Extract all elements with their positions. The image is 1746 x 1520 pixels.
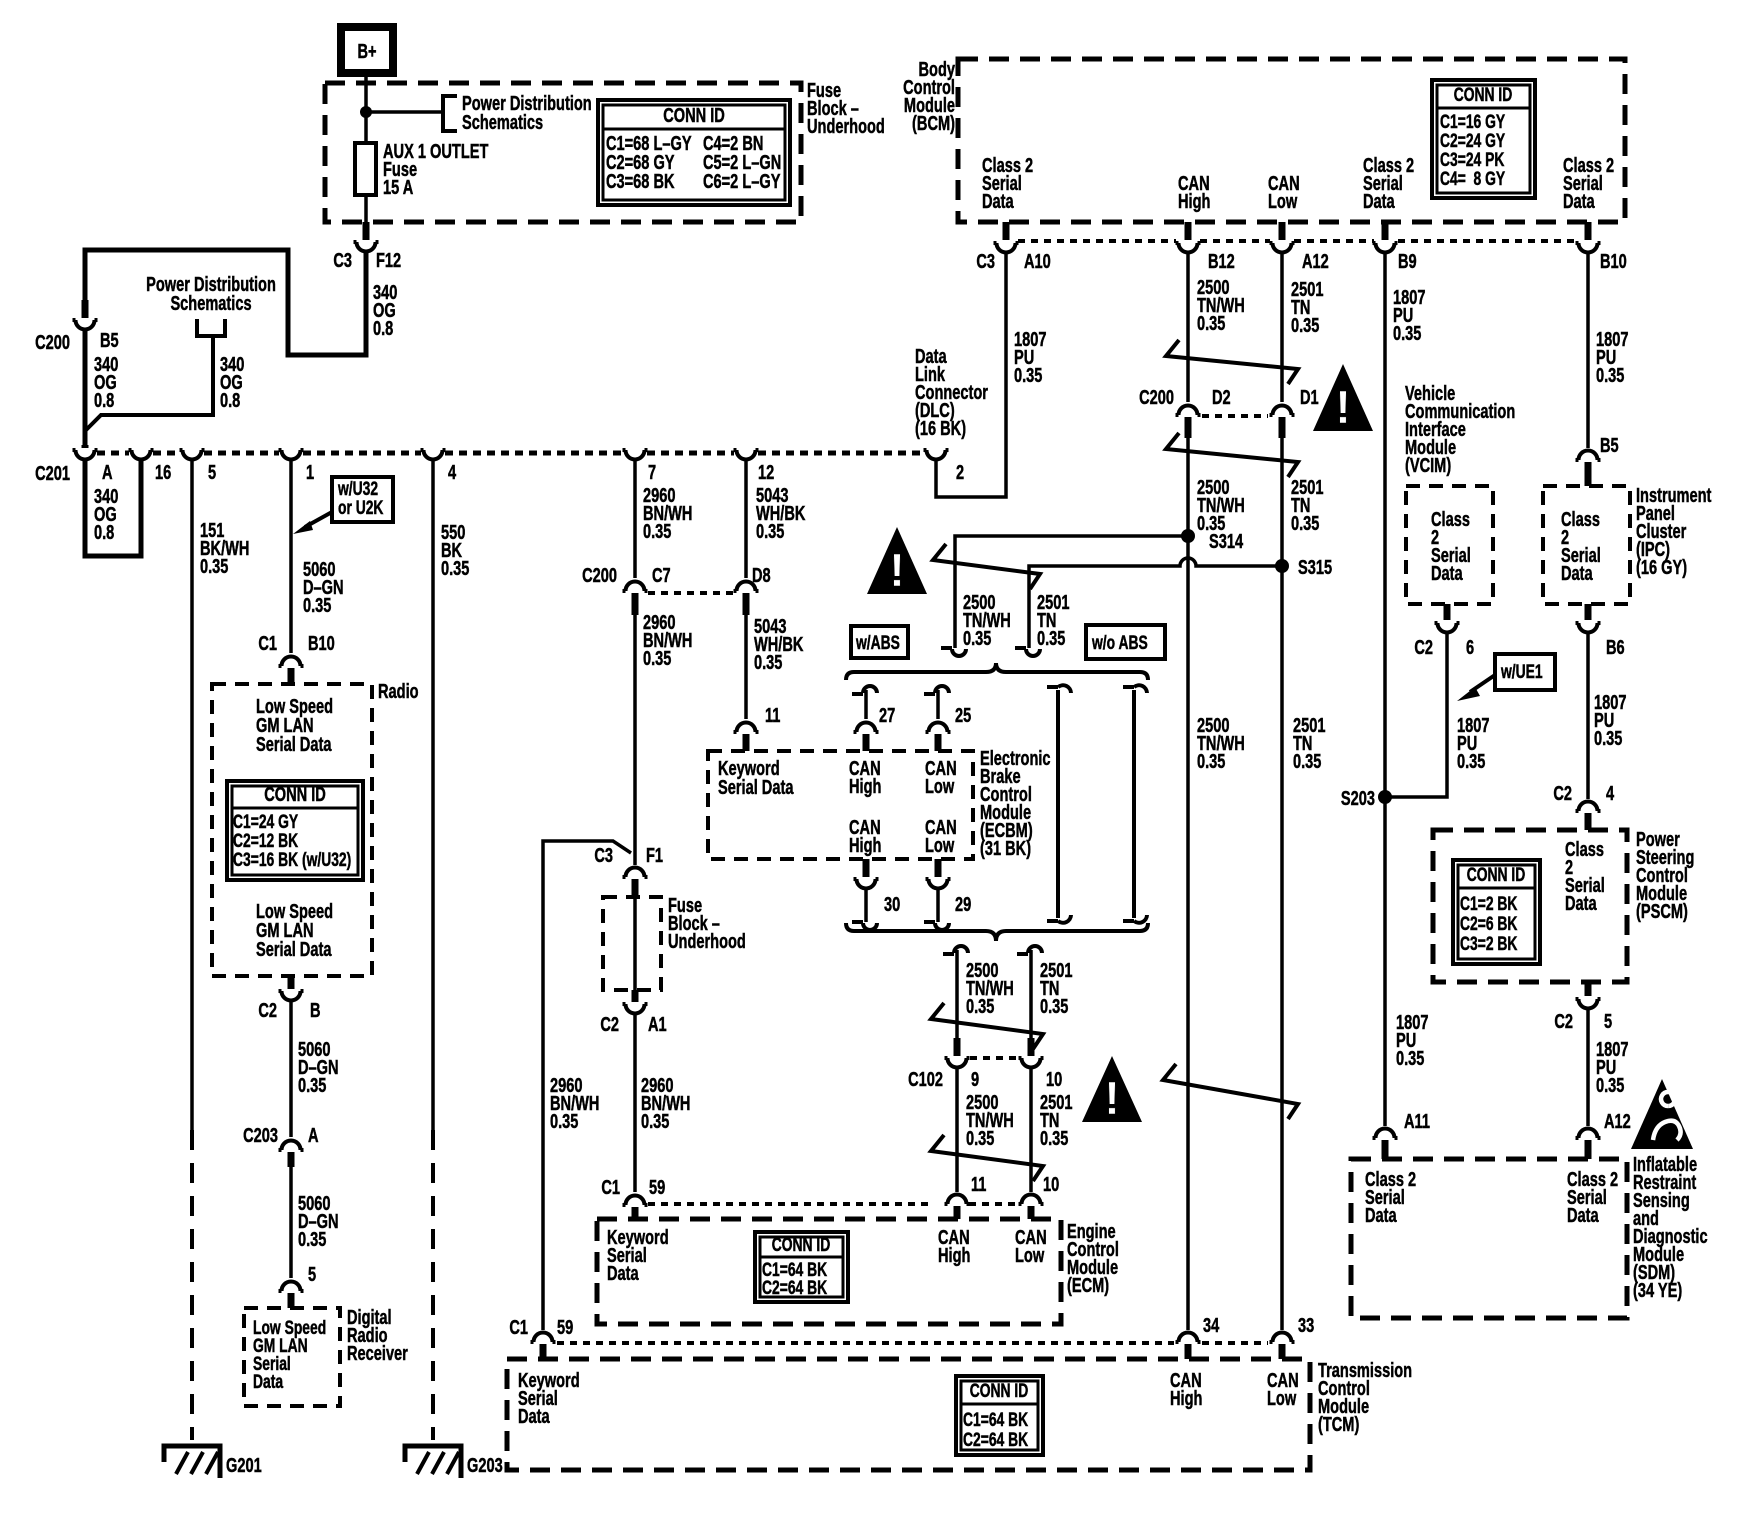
svg-text:4: 4 xyxy=(448,461,456,484)
label 2501 TN 0.35 (w/ABS) xyxy=(1037,591,1070,650)
VCIM box xyxy=(1406,486,1493,604)
label 1807 PU 0.35 (below S203) xyxy=(1396,1011,1428,1070)
wire A10 to DLC 2 (1807 PU) xyxy=(936,254,1006,497)
svg-text:Underhood: Underhood xyxy=(668,930,746,953)
w/o ABS bypass wire (left) xyxy=(1056,690,1060,918)
label class 2 serial data (SDM right) xyxy=(1567,1168,1618,1227)
connector C3/F1 xyxy=(623,868,648,878)
BCM pin stub x=1006 xyxy=(1003,222,1010,240)
dashed connector line C7 to D8 xyxy=(648,591,733,595)
svg-text:Data: Data xyxy=(1563,190,1595,213)
connector C2/B (radio bottom) xyxy=(288,976,295,989)
svg-text:0.35: 0.35 xyxy=(963,627,992,650)
connector C2/A1 xyxy=(632,990,639,1002)
wire fuse to F12 xyxy=(364,195,368,222)
svg-text:C3=68 BK: C3=68 BK xyxy=(606,170,675,193)
svg-text:(34 YE): (34 YE) xyxy=(1633,1279,1682,1302)
wire branch to keyword serial data (left drop) xyxy=(543,841,631,1330)
radio box xyxy=(212,684,372,976)
w/UE1 tag xyxy=(1495,654,1555,690)
svg-text:C3: C3 xyxy=(333,249,352,272)
label 2500 TN/WH 0.35 (trunk) xyxy=(1197,714,1245,773)
label CAN Low (BCM) xyxy=(1268,172,1300,213)
svg-text:16: 16 xyxy=(155,461,171,484)
label class 2 serial data (BCM B9) xyxy=(1363,154,1414,213)
svg-text:0.8: 0.8 xyxy=(94,521,115,544)
wire ECBM pin 25 xyxy=(924,686,949,694)
label engine control module (ECM) xyxy=(1067,1220,1119,1297)
svg-text:0.35: 0.35 xyxy=(966,1127,995,1150)
svg-text:C2: C2 xyxy=(1414,636,1433,659)
wire A12 CAN Low upper xyxy=(1280,254,1284,402)
label CAN High (ECBM upper) xyxy=(849,757,881,798)
wire brace to C102 10 (2501 TN) xyxy=(1017,946,1042,954)
svg-text:C2=64 BK: C2=64 BK xyxy=(762,1277,827,1299)
svg-text:11: 11 xyxy=(765,704,781,727)
label low speed GM LAN serial data (radio bottom) xyxy=(256,900,333,961)
label class 2 serial data (IPC) xyxy=(1561,508,1601,585)
label 151 BK/WH 0.35 xyxy=(200,519,249,578)
wire S314 to w/ABS drop xyxy=(955,536,1188,648)
svg-text:0.35: 0.35 xyxy=(1457,750,1486,773)
svg-text:C2: C2 xyxy=(258,999,277,1022)
BCM pin stub x=1282 xyxy=(1279,222,1286,240)
label instrument panel cluster (IPC) (16 GY) xyxy=(1636,484,1712,579)
DLC pin 1 xyxy=(279,450,304,460)
svg-text:C1: C1 xyxy=(258,632,277,655)
wire DLC A to pin 16 loop xyxy=(85,461,141,556)
BCM pin stub x=1588 xyxy=(1585,222,1592,240)
CONN ID table (ECM) xyxy=(755,1232,848,1302)
svg-text:0.35: 0.35 xyxy=(1037,627,1066,650)
svg-text:5: 5 xyxy=(1604,1010,1612,1033)
w/U32 or U2K tag xyxy=(332,477,393,522)
connector C200/D1 xyxy=(1270,406,1295,416)
label 2501 TN 0.35 (above C102) xyxy=(1040,959,1073,1018)
label keyword serial data (ECM) xyxy=(607,1226,669,1285)
svg-text:0.35: 0.35 xyxy=(1393,322,1422,345)
connector C2/5 (PSCM bottom) xyxy=(1585,982,1592,996)
svg-text:0.35: 0.35 xyxy=(966,995,995,1018)
svg-text:C2: C2 xyxy=(600,1013,619,1036)
connector C200/D2 xyxy=(1176,406,1201,416)
label 1807 PU 0.35 (A10) xyxy=(1014,328,1046,387)
svg-text:A1: A1 xyxy=(648,1013,667,1036)
svg-text:0.35: 0.35 xyxy=(1040,995,1069,1018)
digital radio receiver box xyxy=(244,1308,340,1406)
svg-text:(16 GY): (16 GY) xyxy=(1636,556,1687,579)
DLC pin 12 xyxy=(734,450,759,460)
PSCM box xyxy=(1433,830,1627,982)
svg-text:F1: F1 xyxy=(646,844,663,867)
label 2960 BN/WH 0.35 (A1) xyxy=(641,1074,690,1133)
svg-text:Low: Low xyxy=(1268,190,1298,213)
warning triangle (ECM) xyxy=(1082,1056,1142,1122)
connector pin 33 (TCM) xyxy=(1270,1333,1295,1343)
svg-text:Data: Data xyxy=(1567,1204,1599,1227)
svg-text:Data: Data xyxy=(518,1405,550,1428)
svg-text:25: 25 xyxy=(955,704,971,727)
svg-text:D1: D1 xyxy=(1300,386,1319,409)
battery B+ terminal xyxy=(341,27,393,73)
svg-text:C2=6 BK: C2=6 BK xyxy=(1460,913,1517,935)
CONN ID table (fuse block) xyxy=(598,100,790,205)
splice S314 xyxy=(1181,529,1195,543)
svg-text:High: High xyxy=(849,834,881,857)
power distribution bracket (left) xyxy=(197,319,225,336)
label 2500 TN/WH 0.35 (below C102) xyxy=(966,1091,1014,1150)
svg-text:9: 9 xyxy=(971,1068,979,1091)
label digital radio receiver xyxy=(347,1306,408,1365)
label CAN High (ECBM lower) xyxy=(849,816,881,857)
svg-text:C3=2 BK: C3=2 BK xyxy=(1460,933,1517,955)
svg-text:B5: B5 xyxy=(1600,434,1619,457)
label class 2 serial data (BCM A10) xyxy=(982,154,1033,213)
svg-text:34: 34 xyxy=(1203,1314,1219,1337)
svg-text:(VCIM): (VCIM) xyxy=(1405,454,1451,477)
svg-text:C6=2 L–GY: C6=2 L–GY xyxy=(703,170,781,193)
wire S315 to w/ABS drop (hops B12 wire) xyxy=(1029,558,1282,648)
svg-text:B: B xyxy=(310,999,321,1022)
svg-text:27: 27 xyxy=(879,704,895,727)
svg-text:Radio: Radio xyxy=(378,680,419,703)
svg-text:Data: Data xyxy=(1561,562,1593,585)
svg-text:(16 BK): (16 BK) xyxy=(915,417,966,440)
connector C201/A xyxy=(82,445,89,448)
svg-text:30: 30 xyxy=(884,893,900,916)
svg-text:(BCM): (BCM) xyxy=(912,112,955,135)
svg-text:0.35: 0.35 xyxy=(1014,364,1043,387)
svg-text:D8: D8 xyxy=(752,564,771,587)
svg-text:High: High xyxy=(1170,1387,1202,1410)
SDM box xyxy=(1351,1159,1627,1318)
dashed connector line C102 xyxy=(970,1056,1018,1060)
twisted pair (above C102) xyxy=(931,1003,1043,1049)
svg-text:2: 2 xyxy=(956,461,964,484)
CONN ID table (radio) xyxy=(227,781,363,880)
label CAN High (TCM) xyxy=(1170,1369,1202,1410)
svg-text:Receiver: Receiver xyxy=(347,1342,408,1365)
label 2501 TN 0.35 (below C102) xyxy=(1040,1091,1073,1150)
svg-text:Data: Data xyxy=(1565,892,1597,915)
svg-text:S314: S314 xyxy=(1209,530,1243,553)
svg-text:0.35: 0.35 xyxy=(1594,727,1623,750)
connector A12 (SDM) xyxy=(1576,1129,1601,1139)
svg-text:C3=16 BK (w/U32): C3=16 BK (w/U32) xyxy=(233,849,351,871)
label 5060 D-GN 0.35 (A) xyxy=(298,1192,339,1251)
label fuse block underhood (pass-through) xyxy=(668,894,746,953)
label 340 OG 0.8 (F12) xyxy=(373,281,398,340)
svg-text:A11: A11 xyxy=(1404,1110,1430,1133)
wire A1 to C1 59 xyxy=(633,1015,637,1192)
svg-text:Underhood: Underhood xyxy=(807,115,885,138)
svg-text:G203: G203 xyxy=(467,1454,503,1477)
svg-text:B10: B10 xyxy=(1600,250,1627,273)
svg-text:C1: C1 xyxy=(509,1316,528,1339)
wire B5 to C201 A xyxy=(83,331,88,445)
svg-text:33: 33 xyxy=(1298,1314,1314,1337)
svg-text:0.8: 0.8 xyxy=(220,389,241,412)
wire C203 to digital radio receiver pin 5 xyxy=(289,1167,293,1278)
svg-text:0.35: 0.35 xyxy=(298,1228,327,1251)
svg-text:0.35: 0.35 xyxy=(1396,1047,1425,1070)
svg-text:Low: Low xyxy=(925,834,955,857)
wire brace to C102 9 (2500 TN/WH) xyxy=(943,946,968,954)
wire B6 to PSCM C2/4 xyxy=(1586,634,1590,799)
w/ABS tag xyxy=(851,626,908,658)
svg-text:w/o ABS: w/o ABS xyxy=(1091,632,1148,654)
svg-text:A: A xyxy=(308,1124,319,1147)
label 1807 PU 0.35 (VCIM 6) xyxy=(1457,714,1489,773)
svg-text:(TCM): (TCM) xyxy=(1318,1413,1359,1436)
twisted pair (w/ABS drops) xyxy=(933,544,1040,589)
svg-text:0.35: 0.35 xyxy=(643,520,672,543)
junction on B+ feed xyxy=(360,106,372,118)
svg-text:Schematics: Schematics xyxy=(170,292,251,315)
label 2501 TN 0.35 (trunk) xyxy=(1293,714,1326,773)
svg-text:Serial Data: Serial Data xyxy=(256,733,332,756)
twisted pair (above C200) xyxy=(1166,340,1298,384)
connector C2/6 (VCIM) xyxy=(1444,604,1451,620)
connector pin 5 (digital radio receiver) xyxy=(279,1282,304,1291)
svg-text:C200: C200 xyxy=(582,564,617,587)
connector C200/D8 xyxy=(734,582,759,592)
svg-text:Data: Data xyxy=(982,190,1014,213)
twisted pair (above TCM) xyxy=(1163,1064,1298,1119)
wire B9 to S203 to SDM A11 (1807 PU) xyxy=(1383,254,1387,1126)
svg-text:Low: Low xyxy=(925,775,955,798)
label CAN High (ECM) xyxy=(938,1226,970,1267)
svg-text:(PSCM): (PSCM) xyxy=(1636,900,1688,923)
svg-text:G201: G201 xyxy=(226,1454,262,1477)
svg-text:(ECM): (ECM) xyxy=(1067,1274,1109,1297)
svg-text:59: 59 xyxy=(557,1316,573,1339)
label 2960 BN/WH 0.35 (C7) xyxy=(643,611,692,670)
label 2501 TN 0.35 (D1) xyxy=(1291,476,1324,535)
BCM pin stub x=1385 xyxy=(1382,222,1389,240)
svg-text:0.35: 0.35 xyxy=(303,594,332,617)
svg-text:C203: C203 xyxy=(243,1124,278,1147)
svg-text:0.8: 0.8 xyxy=(94,389,115,412)
svg-text:7: 7 xyxy=(648,461,656,484)
splice S203 xyxy=(1378,790,1392,804)
CONN ID table (BCM) xyxy=(1432,80,1535,198)
svg-text:B6: B6 xyxy=(1606,636,1625,659)
label low speed GM LAN serial data (DRR) xyxy=(253,1317,326,1393)
label transmission control module (TCM) xyxy=(1318,1359,1412,1436)
svg-text:Low: Low xyxy=(1015,1244,1045,1267)
connector pin 11 (ECBM) xyxy=(734,723,759,732)
wire F12 to C200 B5 (340 OG) xyxy=(85,250,366,355)
svg-text:C3: C3 xyxy=(976,250,995,273)
label power distribution schematics (top) xyxy=(462,92,592,134)
svg-text:Schematics: Schematics xyxy=(462,111,543,134)
svg-text:B12: B12 xyxy=(1208,250,1235,273)
svg-text:Data: Data xyxy=(607,1262,639,1285)
ECBM keyword serial data box xyxy=(708,751,973,859)
svg-text:CONN ID: CONN ID xyxy=(1467,864,1526,886)
svg-text:C4= 8 GY: C4= 8 GY xyxy=(1440,168,1505,190)
svg-text:(31 BK): (31 BK) xyxy=(980,837,1031,860)
connector B5 (IPC) xyxy=(1576,451,1601,460)
svg-text:B9: B9 xyxy=(1398,250,1417,273)
svg-text:0.35: 0.35 xyxy=(441,557,470,580)
svg-text:CONN ID: CONN ID xyxy=(970,1380,1029,1402)
svg-text:or U2K: or U2K xyxy=(338,497,383,519)
svg-text:C7: C7 xyxy=(652,564,671,587)
wire B12 CAN High upper xyxy=(1186,254,1190,402)
label 340 OG 0.8 (bracket) xyxy=(220,353,245,412)
TCM connector dotted line xyxy=(557,1341,1268,1345)
svg-text:C1=64 BK: C1=64 BK xyxy=(963,1409,1028,1431)
fuse block underhood box xyxy=(325,83,801,222)
svg-text:A10: A10 xyxy=(1024,250,1051,273)
label 550 BK 0.35 xyxy=(441,521,470,580)
svg-text:0.35: 0.35 xyxy=(1291,314,1320,337)
label 5043 WH/BK 0.35 (D8) xyxy=(754,615,804,674)
connector C200/B5 xyxy=(82,300,89,318)
svg-text:12: 12 xyxy=(758,461,774,484)
label inflatable restraint sensing and diagnostic module (SDM) (34 YE) xyxy=(1633,1153,1708,1302)
svg-text:High: High xyxy=(849,775,881,798)
warning triangle (C200 area) xyxy=(1313,364,1373,431)
splice S315 xyxy=(1275,559,1289,573)
wire ECBM pin 30 xyxy=(863,859,870,877)
svg-text:4: 4 xyxy=(1606,782,1614,805)
svg-text:59: 59 xyxy=(649,1176,665,1199)
wire DLC 7 to C200 C7 (2960 BN/WH) xyxy=(633,461,637,578)
svg-text:C2: C2 xyxy=(1553,782,1572,805)
DLC connector bus (16 BK) xyxy=(97,451,129,456)
label CAN Low (ECBM upper) xyxy=(925,757,957,798)
wire DLC 12 to D8 xyxy=(744,461,748,578)
w/o ABS tag xyxy=(1086,625,1165,659)
svg-text:!: ! xyxy=(1335,381,1350,433)
label 2500 TN/WH 0.35 (B12) xyxy=(1197,276,1245,335)
svg-text:5: 5 xyxy=(208,461,216,484)
label CAN Low (ECBM lower) xyxy=(925,816,957,857)
label 5043 WH/BK 0.35 (12) xyxy=(756,484,806,543)
connector C203/A xyxy=(279,1141,304,1151)
svg-text:0.35: 0.35 xyxy=(1040,1127,1069,1150)
svg-text:29: 29 xyxy=(955,893,971,916)
connector B6 (IPC bottom) xyxy=(1585,604,1592,620)
svg-text:C1=2 BK: C1=2 BK xyxy=(1460,893,1517,915)
svg-text:C200: C200 xyxy=(35,331,70,354)
DLC pin 7 xyxy=(623,450,648,460)
svg-text:6: 6 xyxy=(1466,636,1474,659)
svg-text:0.35: 0.35 xyxy=(643,647,672,670)
svg-text:C102: C102 xyxy=(908,1068,943,1091)
ground G201 xyxy=(164,1446,262,1478)
CONN ID table (PSCM) xyxy=(1453,860,1540,964)
svg-text:0.35: 0.35 xyxy=(550,1110,579,1133)
ABS group brace (top) xyxy=(846,663,1148,680)
wire VCIM 6 to S203 xyxy=(1391,634,1447,797)
wire bracket to C201 merge xyxy=(85,336,213,431)
label 340 OG 0.8 (C201 A) xyxy=(94,485,119,544)
svg-text:!: ! xyxy=(889,544,904,596)
svg-text:C1: C1 xyxy=(601,1176,620,1199)
wire radio B to C203 A xyxy=(289,1002,293,1137)
label power steering control module (PSCM) xyxy=(1636,828,1694,923)
svg-text:0.35: 0.35 xyxy=(754,651,783,674)
label 2501 TN 0.35 (A12) xyxy=(1291,278,1324,337)
svg-text:15 A: 15 A xyxy=(383,176,414,199)
DLC pin 2 xyxy=(924,450,949,460)
label 1807 PU 0.35 (B10) xyxy=(1596,328,1628,387)
label CAN High (BCM) xyxy=(1178,172,1210,213)
connector C200/C7 xyxy=(623,582,648,592)
svg-text:1: 1 xyxy=(306,461,314,484)
label class 2 serial data (VCIM) xyxy=(1431,508,1471,585)
svg-text:Serial Data: Serial Data xyxy=(256,938,332,961)
BCM pin stub x=1188 xyxy=(1185,222,1192,240)
svg-text:B+: B+ xyxy=(357,40,376,63)
svg-text:0.8: 0.8 xyxy=(373,317,394,340)
svg-text:S203: S203 xyxy=(1341,787,1375,810)
BCM connector dotted line xyxy=(1018,239,1576,243)
label 2960 BN/WH 0.35 (left drop) xyxy=(550,1074,599,1133)
arrow w/U32 to wire 1 xyxy=(305,512,332,527)
svg-text:Data: Data xyxy=(253,1371,284,1393)
label keyword serial data (ECBM) xyxy=(718,757,794,799)
svg-text:A: A xyxy=(102,461,113,484)
wire left drop to TCM C1/59 xyxy=(531,1333,556,1343)
svg-text:C2: C2 xyxy=(1554,1010,1573,1033)
svg-text:C2=64 BK: C2=64 BK xyxy=(963,1429,1028,1451)
label 1807 PU 0.35 (PSCM 5) xyxy=(1596,1038,1628,1097)
connector A11 (SDM) xyxy=(1373,1129,1398,1139)
connector C1/B10 (radio) xyxy=(279,657,304,667)
svg-text:0.35: 0.35 xyxy=(1291,512,1320,535)
SDM airbag symbol xyxy=(1631,1079,1693,1149)
wire DLC 4 to G203 (550 BK) xyxy=(431,461,435,1130)
svg-text:High: High xyxy=(1178,190,1210,213)
label class 2 serial data (PSCM) xyxy=(1565,838,1605,915)
svg-text:0.35: 0.35 xyxy=(641,1110,670,1133)
body control module (BCM) box xyxy=(958,59,1625,222)
ABS group brace (bottom) xyxy=(846,923,1148,941)
label 2500 TN/WH 0.35 (w/ABS) xyxy=(963,591,1011,650)
label 1807 PU 0.35 (B6) xyxy=(1594,691,1626,750)
label 5060 D-GN 0.35 (B) xyxy=(298,1038,339,1097)
wire B10 to IPC B5 (1807 PU) xyxy=(1586,254,1590,448)
label keyword serial data (TCM) xyxy=(518,1369,580,1428)
label 2500 TN/WH 0.35 (D2) xyxy=(1197,476,1245,535)
IPC box xyxy=(1543,486,1630,604)
label CAN Low (ECM) xyxy=(1015,1226,1047,1267)
label 1807 PU 0.35 (B9) xyxy=(1393,286,1425,345)
label 2960 BN/WH 0.35 (7) xyxy=(643,484,692,543)
ECM connector dotted line xyxy=(648,1202,1019,1206)
svg-text:0.35: 0.35 xyxy=(1596,364,1625,387)
svg-text:10: 10 xyxy=(1046,1068,1062,1091)
wire D2 to S314 xyxy=(1186,438,1190,1330)
arrow w/UE1 to wire xyxy=(1470,675,1495,692)
power distribution schematics bracket (top) xyxy=(443,96,457,131)
svg-text:Data: Data xyxy=(1431,562,1463,585)
svg-text:C201: C201 xyxy=(35,462,70,485)
svg-text:0.35: 0.35 xyxy=(1596,1074,1625,1097)
svg-text:B10: B10 xyxy=(308,632,335,655)
svg-text:CONN ID: CONN ID xyxy=(663,104,725,127)
svg-text:w/ABS: w/ABS xyxy=(855,632,900,654)
svg-text:CONN ID: CONN ID xyxy=(1454,84,1513,106)
svg-text:11: 11 xyxy=(971,1173,987,1196)
label electronic brake control module (ECBM) (31 BK) xyxy=(980,747,1051,860)
svg-text:C3: C3 xyxy=(594,844,613,867)
